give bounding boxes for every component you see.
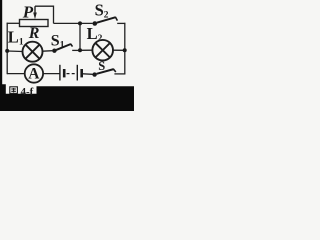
wire right rail vertical xyxy=(124,23,126,74)
lamp L1 xyxy=(23,42,43,62)
switch S1 xyxy=(52,44,72,53)
svg-text:4-f: 4-f xyxy=(21,86,34,98)
wire node branch vertical at x=80 xyxy=(79,23,81,50)
battery dashed middle wire xyxy=(67,73,77,75)
battery B1 cell 1 short plate xyxy=(63,69,66,77)
node junction dot on left rail xyxy=(5,49,9,53)
lamp L2 xyxy=(92,40,113,61)
node junction dot on right rail xyxy=(123,48,127,52)
wire L1 branch: left rail to lamp L1 xyxy=(7,50,22,53)
svg-text:S: S xyxy=(98,59,105,73)
rheostat slider arrow P xyxy=(33,6,37,19)
battery B1 cell 2 short plate xyxy=(80,69,83,77)
ammeter A1 xyxy=(25,64,43,82)
rheostat R1 body xyxy=(20,20,49,27)
node junction dot on top wire xyxy=(78,21,82,25)
wire lamp L1 to switch S1 pivot xyxy=(43,50,53,53)
wire ammeter to battery xyxy=(43,73,59,75)
scan border left edge xyxy=(0,0,2,111)
wire left rail vertical xyxy=(6,23,8,74)
svg-text:A: A xyxy=(28,66,40,83)
switch S2 xyxy=(93,17,118,26)
wire switch S fixed contact to bottom-right corner xyxy=(114,73,125,75)
wire S2 fixed contact to top-right corner xyxy=(117,22,125,24)
caption glyph box (tu) xyxy=(10,87,18,94)
wire battery to switch S pivot xyxy=(83,73,93,76)
wire lamp L2 to right rail xyxy=(113,49,125,51)
wire rheostat slider step: up-right-down xyxy=(35,6,54,23)
svg-text:P: P xyxy=(22,2,34,21)
scan black bar bottom xyxy=(0,84,134,111)
svg-text:R: R xyxy=(28,25,40,42)
battery B1 cell 1 long plate xyxy=(59,65,61,81)
wire top middle from slider step to S2 pivot xyxy=(54,22,93,24)
node junction dot on S1 branch xyxy=(78,48,82,52)
wire bottom from left corner to ammeter xyxy=(7,73,25,75)
wire node to lamp L2 xyxy=(80,49,92,51)
switch S xyxy=(92,69,115,77)
battery B1 cell 2 long plate xyxy=(76,65,78,81)
wire S1 fixed contact to node xyxy=(72,49,80,51)
wire top-left horizontal from left rail to rheostat xyxy=(7,22,20,24)
